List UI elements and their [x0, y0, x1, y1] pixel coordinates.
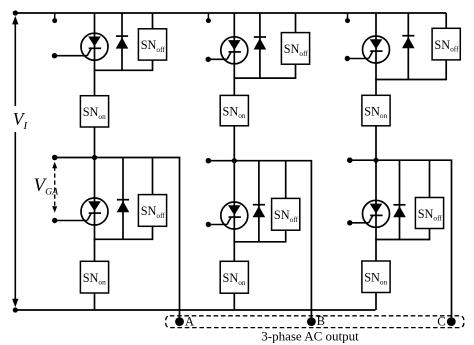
snubber box SNon (phase B upper) [220, 95, 248, 125]
gate terminal node of GTO thyristor Q6 (phase C lower) [347, 220, 352, 225]
gate-drive reference terminal (phase A lower) [52, 155, 58, 161]
svg-text:VI: VI [13, 109, 29, 132]
wire: gate lead of GTO thyristor Q4 (phase A lower) [55, 220, 87, 222]
gate-drive terminal node on + rail (phase A top) [52, 18, 57, 23]
GTO thyristor Q4 (phase A lower) [81, 198, 108, 225]
gate-drive terminal node on + rail (phase B top) [206, 18, 211, 23]
wire: gate lead of GTO thyristor Q1 (phase A upper) [55, 55, 88, 57]
GTO thyristor Q2 (phase B upper) [221, 37, 248, 64]
wire: freewheel diode branch (phase A upper) [121, 13, 123, 70]
wire: upper cell bottom bus (phase A) [94, 69, 154, 71]
wire: anode/cathode branch of Q2 (phase B) [233, 13, 235, 95]
svg-text:A: A [185, 314, 194, 328]
wire: freewheel diode branch (phase C lower) [399, 160, 401, 239]
wire: SNoff branch lower segment (phase C lower) [429, 229, 431, 240]
diode D3 (phase C upper) [402, 36, 415, 49]
wire: SNoff branch upper segment (phase A upper) [152, 13, 154, 29]
snubber box SNoff (phase A upper) [138, 29, 166, 60]
wire: SNoff branch lower segment (phase A upper) [152, 60, 154, 70]
diode D1 (phase A upper) [116, 36, 129, 49]
output terminal B [307, 317, 316, 326]
wire: SNon to - rail (phase C lower) [375, 293, 377, 311]
output terminal A [175, 317, 184, 326]
gate terminal node of GTO thyristor Q1 (phase A upper) [52, 53, 57, 58]
svg-text:B: B [317, 314, 325, 328]
node: phase C midpoint junction [373, 158, 378, 163]
output terminal C [447, 317, 456, 326]
wire: SNoff branch lower segment (phase A lower) [152, 226, 154, 239]
wire: freewheel diode branch (phase B upper) [259, 13, 261, 78]
wire: SNoff branch upper segment (phase C upper) [445, 13, 447, 28]
wire: anode branch of Q4 (phase A lower) [94, 158, 96, 262]
snubber box SNon (phase C lower) [362, 261, 390, 293]
snubber box SNon (phase A upper) [80, 96, 108, 127]
wire: phase C output node rail and drop to terminal [350, 160, 452, 321]
GTO thyristor Q5 (phase B lower) [221, 202, 248, 229]
gate-drive terminal node on + rail (phase C top) [345, 18, 350, 23]
wire: SNoff branch lower segment (phase C upper) [445, 60, 447, 80]
gate-drive reference terminal (phase B lower) [206, 158, 212, 164]
wire: gate lead of GTO thyristor Q5 (phase B lower) [208, 224, 227, 226]
wire: SNon to phase node (phase B upper) [233, 126, 235, 161]
snubber box SNoff (phase B upper) [281, 33, 309, 65]
wire: SNon to - rail (phase A lower) [94, 293, 96, 310]
wire: gate lead of GTO thyristor Q6 (phase C lower) [350, 222, 369, 224]
wire: SNon to - rail (phase B lower) [233, 293, 235, 310]
wire: bottom DC rail (-) [15, 309, 375, 311]
diode D5 (phase B lower) [253, 205, 266, 218]
junction: V_I top on + rail [13, 10, 18, 15]
wire: phase B output node rail and drop to terminal [208, 161, 311, 322]
diode D4 (phase A lower) [117, 200, 130, 213]
snubber box SNon (phase B lower) [220, 261, 248, 293]
gate terminal node of GTO thyristor Q3 (phase C upper) [345, 56, 350, 61]
snubber box SNoff (phase C upper) [432, 28, 460, 60]
3-phase AC output dashed enclosure [166, 316, 464, 328]
wire: freewheel diode branch (phase B lower) [258, 161, 260, 242]
wire: gate lead of GTO thyristor Q2 (phase B upper) [208, 58, 227, 60]
gate terminal node of GTO thyristor Q4 (phase A lower) [52, 218, 57, 223]
wire: SNon to phase node (phase A upper) [94, 127, 96, 158]
wire: SNoff branch upper segment (phase B upper) [295, 13, 297, 33]
snubber box SNoff (phase A lower) [138, 195, 166, 227]
wire: lower cell bottom bus (phase B) [234, 241, 287, 243]
GTO thyristor Q3 (phase C upper) [363, 36, 390, 63]
wire: SNon to phase node (phase C upper) [375, 126, 377, 160]
GTO thyristor Q1 (phase A upper) [81, 33, 108, 60]
snubber box SNoff (phase B lower) [272, 198, 300, 230]
diode D6 (phase C lower) [393, 205, 406, 218]
wire: anode branch of Q5 (phase B lower) [233, 161, 235, 262]
wire: upper cell bottom bus (phase B) [234, 77, 297, 79]
wire: lower cell bottom bus (phase C) [375, 239, 430, 241]
wire: gate lead of GTO thyristor Q3 (phase C upper) [347, 58, 368, 60]
node: phase B midpoint junction [232, 158, 237, 163]
snubber box SNoff (phase C lower) [415, 198, 443, 229]
wire: phase A output node rail and drop to terminal [55, 158, 180, 322]
wire: freewheel diode branch (phase C upper) [407, 13, 409, 80]
wire: +rail stub to gate-drive terminal (phase A top) [54, 13, 56, 19]
wire: top DC rail (+) [15, 12, 446, 14]
snubber box SNon (phase A lower) [80, 261, 108, 293]
voltage arrow V_GA (gate-cathode, dashed) [52, 162, 57, 213]
wire: upper cell bottom bus (phase C) [375, 79, 447, 81]
junction: V_I bottom on - rail [13, 307, 18, 312]
wire: anode/cathode branch of Q3 (phase C) [375, 13, 377, 95]
gate terminal node of GTO thyristor Q5 (phase B lower) [206, 222, 211, 227]
wire: SNoff branch upper segment (phase B lower) [285, 161, 287, 199]
wire: SNoff branch lower segment (phase B lower) [285, 230, 287, 242]
svg-text:C: C [437, 315, 445, 329]
wire: anode branch of Q6 (phase C lower) [375, 160, 377, 261]
wire: SNoff branch upper segment (phase C lower) [429, 160, 431, 197]
wire: anode/cathode branch of Q1 (phase A) [94, 13, 96, 96]
svg-text:3-phase AC output: 3-phase AC output [261, 329, 359, 344]
diode D2 (phase B upper) [254, 37, 267, 50]
wire: lower cell bottom bus (phase A) [94, 238, 154, 240]
GTO thyristor Q6 (phase C lower) [363, 200, 390, 227]
snubber box SNon (phase C upper) [362, 95, 390, 126]
wire: SNoff branch upper segment (phase A lower) [152, 158, 154, 195]
gate terminal node of GTO thyristor Q2 (phase B upper) [206, 57, 211, 62]
wire: +rail stub to gate-drive terminal (phase C top) [347, 13, 349, 19]
wire: +rail stub to gate-drive terminal (phase B top) [207, 13, 209, 19]
gate-drive reference terminal (phase C lower) [347, 157, 353, 163]
node: phase A midpoint junction [92, 155, 97, 160]
voltage arrow V_I (DC link) [12, 16, 18, 307]
wire: freewheel diode branch (phase A lower) [122, 158, 124, 240]
wire: SNoff branch lower segment (phase B upper) [295, 64, 297, 78]
svg-text:VGA: VGA [34, 175, 60, 198]
